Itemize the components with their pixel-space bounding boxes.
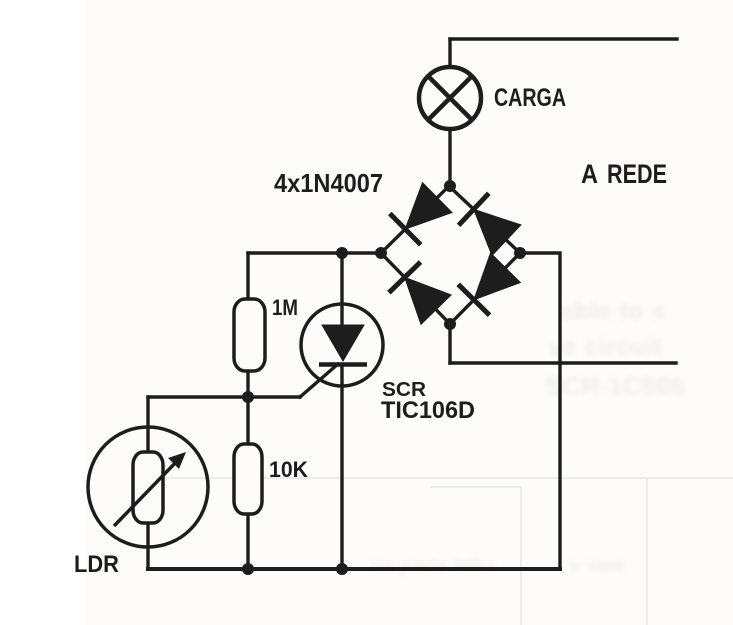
svg-text:10K: 10K [269, 457, 308, 482]
wire: top corner down to lamp [448, 39, 451, 67]
svg-text:na parte infer: na parte infer [370, 555, 497, 577]
wire: SCR cathode vertical down to bottom rail [340, 366, 343, 569]
node: SCR anode junction [336, 247, 348, 259]
resistor R2 10K [234, 444, 262, 514]
wire: LDR column bottom [146, 523, 149, 569]
svg-text:REDE: REDE [607, 159, 667, 189]
svg-text:ve circuit: ve circuit [548, 331, 663, 361]
wire: bridge left node to left corner [248, 251, 381, 254]
wire: right riser from bottom rail to bridge right node [520, 253, 560, 569]
wire: LDR column top [146, 397, 149, 452]
wire: bridge edge bottom-right [450, 253, 520, 324]
diode D4 (bottom-right of bridge) [458, 253, 520, 315]
wire: gate node horizontal to LDR column [148, 395, 300, 398]
wire: top mains horizontal [450, 37, 677, 40]
node: gate divider junction [242, 391, 254, 403]
faint bleed-through box lines bottom [148, 478, 733, 625]
node: bottom rail 10K junction [242, 563, 254, 575]
svg-text:e saw: e saw [570, 555, 625, 577]
svg-text:able to s: able to s [560, 296, 665, 326]
svg-text:4x1N4007: 4x1N4007 [274, 168, 383, 198]
wire: lamp bottom to bridge top node [448, 129, 451, 186]
faint bleed-through text bottom [370, 555, 625, 577]
svg-text:CARGA: CARGA [494, 84, 566, 112]
wire: bridge edge top-left [381, 186, 449, 253]
node: bridge top [444, 180, 456, 192]
diode D1 (top-left of bridge) [390, 183, 452, 245]
faint bleed-through text upper right [545, 296, 685, 401]
lamp CARGA [419, 67, 481, 129]
node: bridge left [375, 247, 387, 259]
wire: bridge bottom node down to lower mains [448, 324, 451, 363]
wire: resistor 10K bottom to bottom rail [246, 514, 249, 569]
wire: gate node down to resistor 10K [246, 397, 249, 444]
wire: bridge edge bottom-left [381, 253, 450, 324]
wire: lower mains horizontal [450, 361, 676, 364]
wire: SCR gate diagonal [300, 364, 338, 397]
node: bottom rail SCR junction [336, 563, 348, 575]
wire: bottom rail [148, 567, 560, 571]
resistor R1 1M [234, 299, 265, 371]
LDR photoresistor [88, 427, 208, 547]
svg-text:TIC106D: TIC106D [381, 397, 475, 424]
svg-text:A: A [581, 159, 598, 189]
svg-text:1M: 1M [272, 295, 298, 320]
svg-text:LDR: LDR [74, 551, 119, 578]
svg-text:SCR-1C506: SCR-1C506 [545, 371, 685, 401]
SCR U1 TIC106D [301, 304, 383, 386]
diode D2 (top-right of bridge) [459, 193, 521, 255]
wire: SCR anode vertical [340, 253, 343, 325]
wire: left corner down to resistor 1M [246, 253, 249, 299]
wire: resistor 1M bottom to gate node [246, 371, 249, 397]
node: bridge bottom [444, 318, 456, 330]
node: bridge right [514, 247, 526, 259]
diode D3 (bottom-left of bridge) [389, 262, 451, 324]
wire: bridge edge top-right [449, 186, 520, 253]
